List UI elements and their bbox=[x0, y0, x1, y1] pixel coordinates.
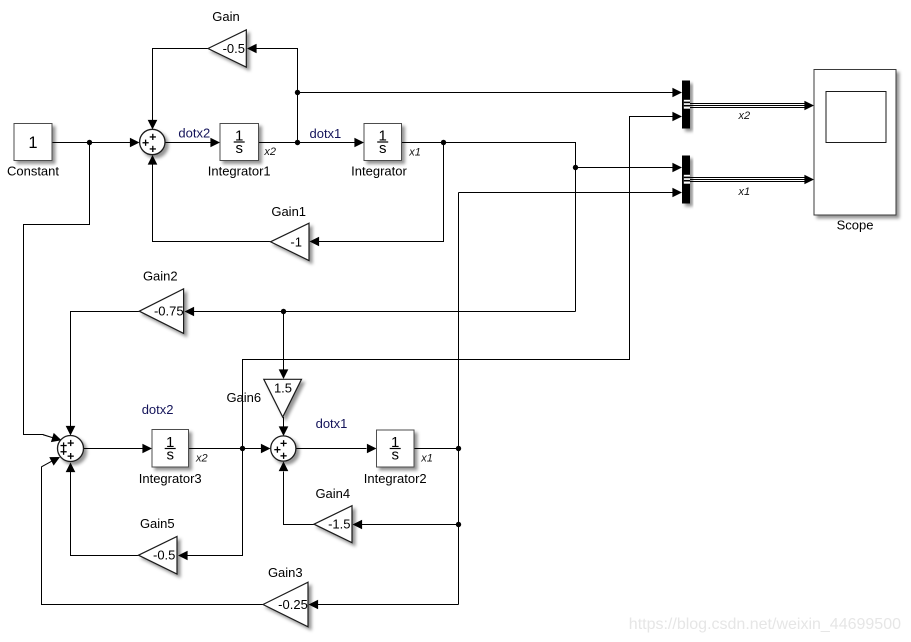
arrow into Mux1 bottom input bbox=[672, 112, 682, 122]
wire x2 tap down to Gain5 input bbox=[188, 449, 243, 556]
arrow into Sum3 top bbox=[66, 426, 76, 436]
node Integrator2 output tap bbox=[456, 446, 461, 451]
svg-text:Gain5: Gain5 bbox=[140, 516, 175, 531]
arrow into Integrator bbox=[354, 138, 364, 148]
svg-text:1.5: 1.5 bbox=[274, 381, 292, 396]
block Integrator2 bbox=[377, 430, 415, 467]
arrow into Sum top bbox=[148, 120, 158, 130]
svg-text:x2: x2 bbox=[738, 110, 751, 122]
wire x2 tap to Mux top input bbox=[298, 92, 674, 94]
block Constant bbox=[14, 124, 52, 161]
block Scope bbox=[814, 70, 896, 216]
wire Integrator1 to Integrator (dotx1) bbox=[259, 142, 355, 144]
wire Gain output to Sum top bbox=[153, 49, 209, 121]
wire Gain2 tap down to Gain6 input bbox=[283, 312, 285, 370]
wire Gain2 output to Sum3 top bbox=[71, 312, 140, 427]
wire Mux2 output triple line to Scope bbox=[690, 178, 805, 182]
arrow into Integrator3 bbox=[142, 444, 152, 454]
wire x1 to Gain3 input bbox=[318, 604, 459, 606]
svg-text:Integrator: Integrator bbox=[351, 164, 407, 179]
wire x1 down to Gain1 input bbox=[319, 143, 444, 242]
svg-text:-0.5: -0.5 bbox=[223, 41, 245, 56]
wire Mux1 output triple line to Scope bbox=[690, 104, 805, 108]
arrow into Integrator2 bbox=[367, 444, 377, 454]
arrow into Sum3 upper-left bbox=[51, 433, 63, 445]
arrow into Gain4 bbox=[353, 520, 363, 530]
node x1 branch to mux2 bbox=[573, 165, 578, 170]
arrow Mux1 line into Scope bbox=[804, 101, 814, 111]
svg-text:Integrator3: Integrator3 bbox=[139, 471, 202, 486]
node x2 tap at wire bbox=[295, 140, 300, 145]
svg-text:1: 1 bbox=[28, 134, 37, 152]
wire Gain3 output left and up bbox=[42, 467, 264, 605]
svg-text:Gain1: Gain1 bbox=[271, 204, 306, 219]
svg-text:-0.5: -0.5 bbox=[153, 548, 175, 563]
svg-text:s: s bbox=[235, 140, 243, 157]
wire branch Constant down-left to Sum3 bbox=[24, 143, 90, 435]
wire x2 tap up-right to Mux bottom input bbox=[243, 117, 674, 449]
gain Gain4 (-1.5) bbox=[314, 506, 352, 543]
arrow into Gain2 bbox=[185, 307, 195, 317]
node Gain2 line tap bbox=[281, 309, 286, 314]
gain Gain3 (-0.25) bbox=[263, 582, 308, 627]
arrow into Sum3 bottom bbox=[66, 463, 76, 473]
wire Gain5 output to Sum3 bottom bbox=[71, 472, 139, 556]
wire Sum4 to Integrator2 (dotx1) bbox=[296, 448, 367, 450]
svg-text:Gain2: Gain2 bbox=[143, 269, 178, 284]
svg-text:dotx2: dotx2 bbox=[178, 126, 210, 141]
wire x1 to Mux1 bottom input bbox=[459, 192, 674, 194]
wire Gain6 output to Sum4 top bbox=[283, 417, 285, 427]
gain Gain5 (-0.5) bbox=[139, 536, 178, 574]
gain Gain6 (1.5, pointing down) bbox=[264, 379, 302, 417]
svg-text:-1: -1 bbox=[290, 235, 302, 250]
mux Mux2 (bottom) bbox=[682, 156, 690, 204]
node Integrator3 output tap bbox=[240, 446, 245, 451]
svg-text:dotx1: dotx1 bbox=[309, 126, 341, 141]
gain Gain2 (-0.75) bbox=[139, 289, 183, 334]
sum block Sum4 (lower middle) bbox=[271, 436, 296, 461]
block Integrator1 bbox=[220, 124, 259, 161]
node x2 tap to mux bbox=[295, 90, 300, 95]
svg-text:x1: x1 bbox=[420, 453, 433, 465]
block Integrator3 bbox=[152, 430, 189, 468]
svg-text:-0.75: -0.75 bbox=[154, 304, 184, 319]
svg-text:-1.5: -1.5 bbox=[328, 517, 350, 532]
svg-text:x2: x2 bbox=[263, 146, 276, 158]
sum block Sum3 (lower left) bbox=[58, 436, 84, 462]
svg-text:Gain6: Gain6 bbox=[226, 390, 261, 405]
node Constant branch bbox=[87, 140, 92, 145]
svg-text:x1: x1 bbox=[738, 186, 751, 198]
arrow into Integrator1 bbox=[210, 138, 220, 148]
svg-text:Integrator1: Integrator1 bbox=[208, 164, 271, 179]
arrow into Mux2 bottom input bbox=[672, 188, 682, 198]
wire Sum3 to Integrator3 bbox=[84, 448, 143, 450]
wire diagonal from left into Sum3 upper-left bbox=[43, 435, 53, 438]
svg-text:Gain: Gain bbox=[212, 9, 239, 24]
svg-text:-0.25: -0.25 bbox=[278, 597, 308, 612]
svg-text:Scope: Scope bbox=[837, 217, 874, 232]
arrow into Gain1 bbox=[310, 237, 320, 247]
wire Gain4 output to Sum4 bottom bbox=[284, 472, 315, 525]
wire x1 vertical spine bbox=[458, 193, 460, 605]
mux Mux1 (top) bbox=[682, 81, 690, 129]
arrow into Sum left bbox=[130, 138, 140, 148]
arrow into Gain3 bbox=[309, 600, 319, 610]
svg-text:dotx1: dotx1 bbox=[316, 416, 348, 431]
ARROWHEADS bbox=[49, 44, 814, 610]
wire Integrator2 x1 out bbox=[414, 448, 459, 450]
sum block Sum (top) bbox=[140, 129, 165, 154]
svg-text:Constant: Constant bbox=[7, 164, 59, 179]
arrow into Mux1 top input bbox=[672, 88, 682, 98]
arrow into Sum4 bottom bbox=[279, 462, 289, 472]
arrow into Sum4 left bbox=[261, 444, 271, 454]
arrow Mux2 line into Scope bbox=[804, 175, 814, 185]
arrow into Gain5 bbox=[178, 551, 188, 561]
gain Gain1 (-1) bbox=[271, 223, 310, 260]
svg-text:x1: x1 bbox=[408, 147, 421, 159]
svg-text:Gain3: Gain3 bbox=[268, 565, 303, 580]
wire Constant to Sum bbox=[52, 142, 131, 144]
arrow into Sum3 lower-left bbox=[49, 453, 62, 466]
arrow into Sum bottom bbox=[148, 155, 158, 165]
svg-text:s: s bbox=[379, 140, 387, 157]
wire diagonal from Gain3 path into Sum3 lower-left bbox=[42, 461, 52, 467]
wire Integrator3 to Sum4 (x2) bbox=[189, 448, 262, 450]
arrow into Sum4 top bbox=[279, 426, 289, 436]
svg-text:https://blog.csdn.net/weixin_4: https://blog.csdn.net/weixin_44699500 bbox=[629, 616, 901, 633]
wire Integrator x1 to corner and down bbox=[402, 143, 576, 312]
node x1 tap bbox=[441, 140, 446, 145]
svg-text:s: s bbox=[391, 446, 399, 463]
block Integrator (top right) bbox=[364, 124, 402, 161]
arrow into Gain6 bbox=[279, 369, 289, 379]
svg-text:dotx2: dotx2 bbox=[142, 402, 174, 417]
diagonal wire segments into Sum3 bbox=[42, 435, 53, 467]
wire Sum to Integrator1 (dotx2) bbox=[165, 142, 211, 144]
wire x1 branch to Mux1 top input bbox=[576, 167, 674, 169]
svg-text:Gain4: Gain4 bbox=[315, 486, 350, 501]
node Gain4 tap bbox=[456, 522, 461, 527]
svg-text:x2: x2 bbox=[195, 453, 208, 465]
svg-text:Integrator2: Integrator2 bbox=[364, 471, 427, 486]
gain Gain (-0.5) bbox=[208, 30, 246, 67]
svg-text:s: s bbox=[166, 446, 174, 463]
wire x2 tap up to Gain input bbox=[257, 49, 298, 143]
arrow into Gain bbox=[247, 44, 257, 54]
arrow into Mux2 top input bbox=[672, 163, 682, 173]
wire Gain1 output to Sum bottom bbox=[153, 165, 271, 242]
wire x1 to Gain4 input bbox=[362, 524, 459, 526]
wire x1 line left to Gain2 input bbox=[194, 311, 576, 313]
